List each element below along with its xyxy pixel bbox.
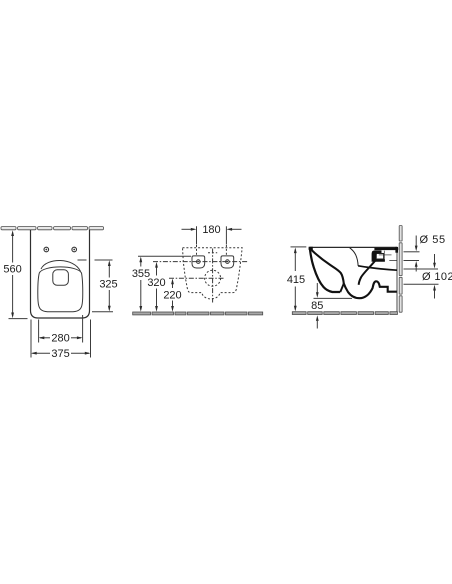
fixing square left: [192, 256, 205, 268]
floor bar (plan wall): [133, 312, 263, 315]
svg-text:Ø 55: Ø 55: [420, 234, 446, 246]
svg-text:325: 325: [99, 278, 117, 290]
seat top arc: [41, 260, 81, 271]
inner bowl front line + trap arch + bowl bottom: [312, 250, 397, 298]
wall line (tiled bar): [1, 227, 104, 230]
dim 325: [78, 260, 118, 312]
pipe centerline cross: [379, 254, 392, 256]
outer front underside: [310, 248, 340, 292]
horizontal centerline through holes: [153, 261, 249, 263]
profile top edge: [310, 246, 398, 248]
inner back diagonal: [359, 260, 376, 285]
fixing hole right: [72, 247, 77, 252]
dim 320: [147, 262, 165, 312]
dim 85: [311, 283, 352, 329]
thin line near wall: [389, 260, 397, 262]
seat rim: [38, 267, 83, 312]
svg-text:85: 85: [311, 300, 323, 312]
svg-text:Ø 102: Ø 102: [422, 271, 452, 283]
pipe wall square: [395, 247, 398, 253]
svg-text:280: 280: [51, 333, 69, 345]
flush pipe bar: [374, 248, 398, 251]
toilet body front: [31, 230, 90, 318]
svg-text:220: 220: [163, 290, 181, 302]
dim 280: [39, 315, 83, 345]
flush elbow: [372, 250, 385, 261]
drain horizontal centerline: [169, 277, 224, 279]
dim 355: [132, 256, 191, 312]
outlet top line: [358, 266, 397, 270]
svg-text:560: 560: [3, 264, 21, 276]
svg-text:375: 375: [51, 348, 69, 360]
dim 220: [163, 279, 181, 312]
wall inner face line: [396, 247, 398, 312]
dim 375: [31, 320, 91, 361]
inner rim back curve: [350, 248, 358, 266]
front tip blob: [309, 247, 313, 251]
top cross tick: [208, 252, 217, 254]
fixing square right: [221, 256, 234, 268]
dim dia 102: [404, 254, 452, 299]
dim 560: [3, 230, 27, 318]
wall bar vertical: [399, 226, 402, 313]
drain circle dashed: [205, 270, 221, 286]
hole centerlines vertical: [196, 245, 198, 256]
vertical centerline: [212, 249, 214, 303]
elbow inner box: [377, 254, 384, 259]
plan outline dashed: [183, 248, 243, 299]
drain square: [53, 270, 69, 286]
dim dia 55: [404, 234, 446, 272]
svg-text:415: 415: [287, 274, 305, 286]
trap arch left leg: [340, 284, 344, 293]
svg-text:180: 180: [202, 224, 220, 236]
svg-text:320: 320: [147, 277, 165, 289]
dim 180: [182, 224, 242, 244]
toilet profile silhouette: [310, 247, 397, 298]
fixing hole left: [44, 247, 49, 252]
dim 415: [287, 247, 306, 312]
floor bar side: [292, 312, 397, 315]
